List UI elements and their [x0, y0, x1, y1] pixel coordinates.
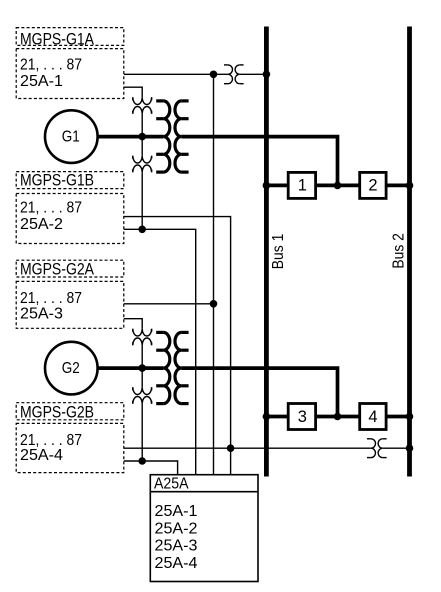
- junction dot breaker row 2 at Bus 1: [263, 413, 271, 421]
- junction dot G2B line1 at vertical: [227, 444, 235, 452]
- svg-text:MGPS-G1B: MGPS-G1B: [20, 172, 94, 190]
- svg-text:25A-4: 25A-4: [155, 555, 198, 572]
- svg-text:MGPS-G2B: MGPS-G2B: [20, 403, 94, 421]
- junction dot CT column at G1 heavy line: [138, 133, 146, 141]
- breaker box 1: [288, 172, 315, 198]
- current transformer CT2 (vertical, below G1 line): [133, 156, 152, 172]
- protection device box MGPS-G1A functions 21...87 / 25A-1: [16, 49, 124, 99]
- junction dot breaker row 1 T1 feed: [334, 182, 342, 190]
- current transformer CT4 (vertical, below G2 line): [133, 387, 152, 403]
- protection device box MGPS-G2A title: [16, 260, 124, 278]
- svg-text:Bus 1: Bus 1: [270, 234, 287, 270]
- wire MGPS-G1B line2: [124, 229, 196, 474]
- breaker box 2: [360, 172, 386, 198]
- wire CT column G2 middle: [141, 345, 143, 387]
- junction dot G2A line1 at vertical: [210, 300, 218, 308]
- junction dot breaker row 1 at Bus 1: [263, 182, 271, 190]
- svg-text:25A-2: 25A-2: [20, 216, 63, 233]
- current transformer CT1 (vertical, above G1 line): [133, 97, 152, 113]
- wire T2 secondary heavy to corner: [181, 368, 337, 416]
- relay box A25A: [150, 475, 258, 582]
- svg-text:25A-3: 25A-3: [20, 306, 63, 323]
- wire G2 output heavy: [98, 366, 164, 370]
- svg-text:1: 1: [298, 176, 307, 194]
- current transformer CT3 (vertical, above G2 line): [133, 329, 152, 345]
- protection device box MGPS-G1A title: [16, 28, 124, 49]
- wire CT column G1 middle: [141, 114, 143, 156]
- junction dot breaker row 2 at Bus 2: [406, 413, 414, 421]
- junction dot breaker row 2 T2 feed: [334, 413, 342, 421]
- wire vertical from G1A/G2A junction to A25A: [213, 74, 215, 474]
- svg-text:A25A: A25A: [154, 475, 189, 492]
- bus Bus 1: [264, 27, 269, 477]
- wire MGPS-G2A line2 to CT column: [124, 319, 142, 329]
- svg-text:25A-3: 25A-3: [155, 538, 198, 555]
- svg-text:21, . . . 87: 21, . . . 87: [20, 57, 82, 74]
- wire MGPS-G2B line2 to A25A: [124, 461, 178, 475]
- wire MGPS-G2B line1 to CT and Bus 2: [124, 447, 371, 449]
- junction dot G2B line1 at Bus 2: [406, 444, 414, 452]
- svg-text:3: 3: [298, 408, 307, 426]
- protection device box MGPS-G1B functions 21...87 / 25A-2: [16, 194, 124, 244]
- svg-text:2: 2: [368, 176, 377, 194]
- svg-text:G2: G2: [62, 360, 80, 377]
- junction dot G1A line to vertical: [210, 71, 218, 79]
- junction dot CT column at G2 heavy line: [138, 364, 146, 372]
- svg-text:MGPS-G1A: MGPS-G1A: [20, 30, 94, 48]
- protection device box MGPS-G2B functions 21...87 / 25A-4: [16, 423, 124, 472]
- transformer T1: [156, 101, 188, 172]
- protection device box MGPS-G2B title: [16, 403, 124, 422]
- wire CT column G2 lower: [141, 404, 143, 461]
- wire T1 secondary heavy to corner: [181, 137, 337, 186]
- wire MGPS-G1A line2 to CT column: [124, 87, 142, 97]
- junction dot breaker row 1 at Bus 2: [406, 182, 414, 190]
- current transformer CT top (horizontal): [224, 65, 244, 84]
- generator G2: [45, 342, 98, 395]
- protection device box MGPS-G1B title: [16, 172, 124, 190]
- current transformer CT bottom (horizontal): [367, 439, 387, 458]
- bus Bus 2: [407, 27, 412, 477]
- svg-text:Bus 2: Bus 2: [390, 233, 407, 269]
- breaker box 3: [288, 404, 315, 430]
- junction dot G1B line2 at CT column: [138, 226, 146, 234]
- svg-text:21, . . . 87: 21, . . . 87: [20, 290, 82, 307]
- transformer T2: [156, 332, 188, 403]
- wire G1 output heavy: [98, 135, 164, 139]
- wire MGPS-G2A line1: [124, 303, 214, 305]
- wire breaker row 2: [266, 415, 288, 419]
- svg-text:25A-1: 25A-1: [20, 73, 63, 90]
- wire CT column G1 lower: [141, 172, 143, 229]
- svg-text:25A-4: 25A-4: [20, 447, 63, 464]
- svg-text:MGPS-G2A: MGPS-G2A: [20, 260, 94, 278]
- breaker box 4: [360, 404, 386, 430]
- protection device box MGPS-G2A functions 21...87 / 25A-3: [16, 281, 124, 328]
- svg-text:25A-2: 25A-2: [155, 520, 198, 537]
- svg-text:25A-1: 25A-1: [155, 503, 198, 520]
- svg-text:21, . . . 87: 21, . . . 87: [20, 199, 82, 216]
- generator G1: [45, 110, 98, 163]
- junction dot G1A line at Bus 1: [263, 71, 271, 79]
- wire breaker row 1: [266, 184, 288, 188]
- svg-text:4: 4: [368, 408, 377, 426]
- wire MGPS-G1B line1: [124, 217, 231, 475]
- wire MGPS-G1A line1 to CT and Bus 1: [124, 73, 228, 75]
- junction dot G2B line2 at CT column: [138, 457, 146, 465]
- svg-text:G1: G1: [62, 128, 80, 145]
